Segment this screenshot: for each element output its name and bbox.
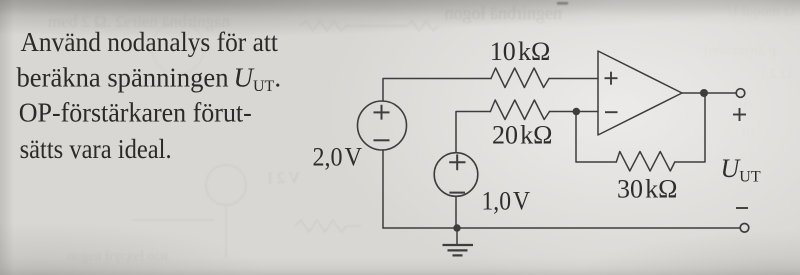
svg-text:Ω 2 I: Ω 2 I [761,66,792,82]
V2 plus sign [449,154,465,170]
resistor R1 10k zigzag [491,68,549,88]
svg-text:10 kΩ: 10 kΩ [490,37,551,66]
V2 minus sign [449,192,465,194]
svg-text:(d: (d [742,124,754,139]
wire feedback left vertical [576,112,616,163]
svg-text:Använd nodanalys för att: Använd nodanalys för att [21,27,279,57]
resistor R3 30k zigzag [616,152,675,172]
wire V1 bottom to ground rail [382,150,384,228]
op-amp U1 triangle [598,51,682,135]
svg-text:Ω moqol U: Ω moqol U [727,4,795,20]
V1 plus sign [374,105,390,120]
node C: ground junction dot [453,224,460,231]
svg-text:(ɒ: (ɒ [740,97,752,112]
voltage source V1 2,0V circle [358,101,407,150]
svg-text:2,0 V: 2,0 V [313,143,363,172]
terminal + sign [733,108,746,121]
wire middle from V2 top corner to R2 [456,112,490,153]
terminal - sign [736,207,748,209]
svg-text:1,0 V: 1,0 V [482,187,531,216]
node B: output junction dot [700,89,708,97]
svg-text:OP-förstärkaren förut-: OP-förstärkaren förut- [19,98,252,128]
wire feedback right vertical up to output node [675,97,705,162]
ghost dash top [557,2,568,5]
voltage source V2 1,0V circle [434,153,478,197]
wire V2 bottom to ground rail [455,197,457,229]
svg-text:p ,(nɘmmiƚɘ): p ,(nɘmmiƚɘ) [703,43,776,58]
ground [443,228,474,255]
op-amp - input sign [605,111,618,113]
svg-text:30 kΩ: 30 kΩ [617,175,678,204]
terminal output + open circle [736,89,745,98]
svg-text:V 2 I: V 2 I [267,170,300,187]
wire top-left from source V1 up and right to R1 [383,79,491,102]
svg-text:UUT: UUT [721,154,761,186]
wire R1 to op-amp + input [549,78,598,80]
V1 minus sign [374,139,390,141]
op-amp + input sign [605,72,618,85]
svg-text:sätts vara ideal.: sätts vara ideal. [20,134,172,164]
svg-text:nɘgnirbnä ƚogon: nɘgnirbnä ƚogon [445,3,562,23]
svg-text:UUT.: UUT. [234,63,282,96]
svg-text:beräkna spänningen: beräkna spänningen [17,63,229,93]
svg-text:ʜɔo ƚɘʞɔyɿƚ nɘgon: ʜɔo ƚɘʞɔyɿƚ nɘgon [67,249,168,264]
svg-text:20 kΩ: 20 kΩ [492,121,553,150]
wire op-amp output [682,92,736,94]
ghost circuit lines [132,21,438,258]
resistor R2 20k zigzag [490,100,549,120]
wire R2 to op-amp - input [550,111,599,113]
terminal output - open circle [740,224,749,233]
node A: inverting input junction dot [573,108,581,116]
wire bottom rail [383,227,740,229]
